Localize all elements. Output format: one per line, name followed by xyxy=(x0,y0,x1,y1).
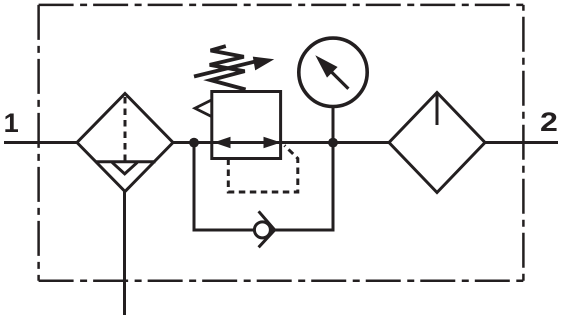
frame edge bottom xyxy=(39,279,524,282)
wire: main line outlet (fine filter to port 2) xyxy=(483,141,558,144)
filter element (dashed separator line) xyxy=(124,97,127,162)
frame edge right xyxy=(522,5,525,281)
check valve seat xyxy=(259,211,275,247)
gauge needle head xyxy=(315,55,337,77)
condensate collector funnel xyxy=(112,162,137,174)
wire: main line middle (filter to fine filter, through regulator) xyxy=(171,141,391,144)
filter diamond body xyxy=(77,94,173,192)
wire: gauge stem xyxy=(332,107,335,143)
fine filter (right diamond) xyxy=(389,93,485,193)
svg-text:1: 1 xyxy=(4,107,19,138)
regulator flow arrowhead left xyxy=(214,137,231,148)
wire: bypass line with check valve xyxy=(194,143,333,231)
frame edge left xyxy=(37,5,40,281)
wire: pilot sensing line (dashed) xyxy=(228,146,297,193)
wire: main line inlet (port 1 to filter) xyxy=(4,141,79,144)
frame edge top xyxy=(39,4,524,7)
filter with water separator (left diamond) xyxy=(77,94,173,192)
regulator adjustment arrow head xyxy=(253,57,274,71)
node: junction dot right (gauge tap) xyxy=(328,138,338,148)
node: junction dot left (bypass tap) xyxy=(189,138,199,148)
enclosure frame (dash-dot assembly boundary) xyxy=(39,5,524,281)
regulator relief vent triangle xyxy=(195,100,212,117)
fine filter diamond body xyxy=(389,93,485,193)
pressure regulator body xyxy=(212,92,281,159)
pressure gauge xyxy=(299,38,367,106)
svg-text:2: 2 xyxy=(540,107,558,137)
regulator adjustment arrow shaft xyxy=(194,61,258,77)
regulator adjustment spring xyxy=(210,46,246,89)
wire: condensate drain line xyxy=(123,192,126,316)
regulator flow arrowhead right xyxy=(264,137,282,148)
condensate level line xyxy=(96,160,156,163)
check valve ball xyxy=(254,222,270,238)
fine filter element line xyxy=(436,95,439,126)
gauge needle shaft xyxy=(331,72,348,89)
